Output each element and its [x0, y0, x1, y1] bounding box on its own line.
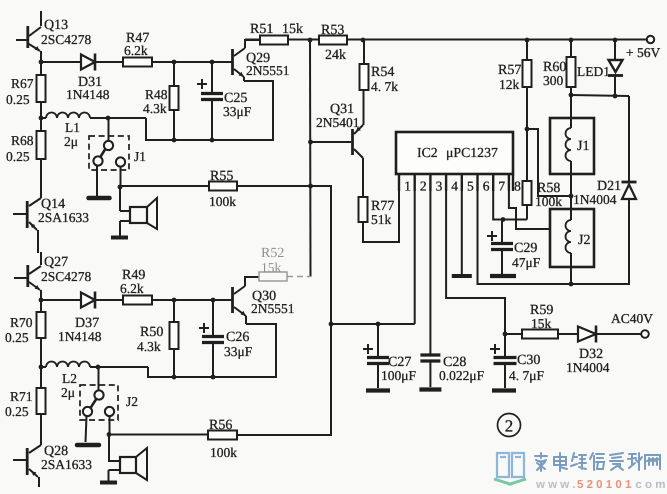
svg-text:47μF: 47μF: [512, 255, 541, 270]
svg-text:2SC4278: 2SC4278: [41, 269, 92, 284]
svg-text:R52: R52: [261, 246, 284, 261]
svg-text:2N5401: 2N5401: [316, 115, 360, 130]
svg-text:3: 3: [436, 179, 443, 194]
svg-text:R50: R50: [140, 325, 163, 340]
svg-text:R55: R55: [210, 169, 233, 184]
svg-text:8: 8: [514, 179, 521, 194]
svg-text:15k: 15k: [261, 260, 282, 275]
svg-text:2: 2: [505, 417, 514, 436]
svg-text:33μF: 33μF: [223, 104, 252, 119]
svg-text:2SA1633: 2SA1633: [38, 210, 89, 225]
svg-text:100k: 100k: [209, 194, 236, 209]
svg-text:51k: 51k: [371, 212, 392, 227]
svg-text:0.25: 0.25: [5, 404, 29, 419]
svg-text:33μF: 33μF: [224, 344, 253, 359]
svg-text:1: 1: [404, 179, 411, 194]
svg-text:6.2k: 6.2k: [120, 281, 144, 296]
svg-text:15k: 15k: [531, 316, 552, 331]
svg-text:R48: R48: [145, 87, 168, 102]
svg-text:R71: R71: [10, 389, 33, 404]
svg-text:J2: J2: [578, 233, 590, 248]
svg-text:LED1: LED1: [577, 64, 610, 79]
svg-text:L2: L2: [62, 371, 77, 386]
svg-text:J2: J2: [126, 394, 138, 409]
svg-text:Q13: Q13: [44, 18, 68, 33]
svg-text:6.2k: 6.2k: [124, 43, 148, 58]
svg-text:5: 5: [467, 179, 474, 194]
svg-text:1N4004: 1N4004: [566, 360, 610, 375]
svg-text:0.022μF: 0.022μF: [439, 368, 485, 383]
svg-text:2N5551: 2N5551: [251, 301, 295, 316]
svg-text:2SA1633: 2SA1633: [41, 457, 92, 472]
svg-text:24k: 24k: [325, 48, 346, 63]
svg-text:2N5551: 2N5551: [246, 63, 290, 78]
svg-text:4. 7k: 4. 7k: [371, 79, 398, 94]
svg-text:2: 2: [420, 179, 427, 194]
svg-text:C26: C26: [226, 330, 249, 345]
svg-text:5 2 0 1 0 1: 5 2 0 1 0 1: [577, 479, 632, 491]
svg-text:+ 56V: + 56V: [626, 45, 660, 60]
svg-text:0.25: 0.25: [6, 149, 30, 164]
svg-text:J1: J1: [134, 149, 146, 164]
svg-text:100k: 100k: [210, 445, 237, 460]
svg-text:2SC4278: 2SC4278: [41, 32, 92, 47]
svg-text:4: 4: [451, 179, 458, 194]
svg-text:C29: C29: [514, 241, 537, 256]
svg-text:R68: R68: [11, 133, 34, 148]
svg-text:IC2: IC2: [417, 145, 438, 160]
svg-text:1N4004: 1N4004: [573, 192, 617, 207]
svg-text:1N4148: 1N4148: [66, 87, 110, 102]
svg-text:6: 6: [483, 179, 490, 194]
svg-text:12k: 12k: [499, 77, 520, 92]
svg-text:0.25: 0.25: [5, 330, 29, 345]
svg-text:J1: J1: [577, 139, 589, 154]
svg-text:7: 7: [498, 179, 505, 194]
svg-text:w w w .: w w w .: [535, 479, 576, 491]
svg-text:R51: R51: [250, 22, 273, 37]
svg-text:μPC1237: μPC1237: [446, 145, 498, 160]
svg-text:0.25: 0.25: [6, 92, 30, 107]
svg-text:L1: L1: [65, 120, 80, 135]
svg-text:R56: R56: [209, 418, 232, 433]
svg-text:1N4148: 1N4148: [58, 329, 102, 344]
svg-text:. c o m: . c o m: [629, 479, 665, 491]
svg-text:4.3k: 4.3k: [143, 101, 167, 116]
svg-text:R67: R67: [11, 76, 34, 91]
svg-text:100μF: 100μF: [381, 368, 416, 383]
svg-text:R70: R70: [10, 315, 33, 330]
svg-text:Q27: Q27: [44, 255, 68, 270]
svg-text:4. 7μF: 4. 7μF: [509, 368, 544, 383]
svg-text:2μ: 2μ: [64, 134, 78, 149]
svg-text:C30: C30: [517, 353, 540, 368]
svg-text:300: 300: [543, 73, 564, 88]
svg-text:4.3k: 4.3k: [137, 339, 161, 354]
svg-text:R53: R53: [321, 23, 344, 38]
svg-text:R57: R57: [498, 63, 521, 78]
svg-text:R54: R54: [371, 65, 394, 80]
svg-text:2μ: 2μ: [61, 385, 75, 400]
svg-text:15k: 15k: [282, 22, 303, 37]
svg-text:AC40V: AC40V: [611, 311, 653, 326]
